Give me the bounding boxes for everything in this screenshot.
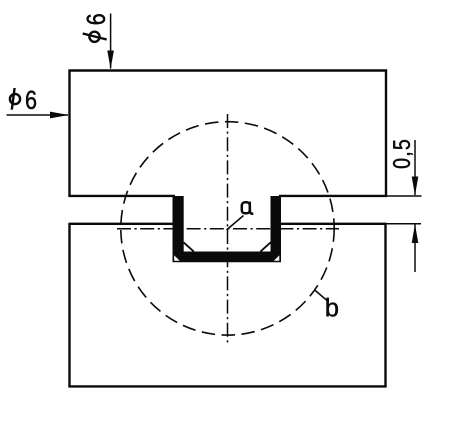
top arrowhead (down) bbox=[107, 51, 114, 70]
phi slash bbox=[12, 88, 15, 110]
inner bend line right bbox=[260, 242, 270, 251]
outer corner relief left (white triangle) bbox=[174, 255, 180, 260]
digit 6 bbox=[87, 14, 105, 24]
vertical center line bbox=[227, 114, 229, 344]
label b text bbox=[326, 298, 337, 317]
label a glyph (single-storey a) bbox=[242, 202, 254, 214]
phi circle bbox=[89, 32, 99, 42]
top dimension arrow line bbox=[110, 14, 112, 69]
lower die block bbox=[70, 224, 386, 387]
outer corner relief right (white triangle) bbox=[274, 255, 280, 260]
inner bend line left bbox=[184, 242, 194, 251]
label phi-6 left bbox=[10, 88, 36, 110]
label a leader line bbox=[227, 216, 244, 231]
upper block bottom edge left segment bbox=[68, 195, 175, 197]
phi slash bbox=[83, 34, 107, 40]
dimension 0,5 lower arrow line bbox=[414, 225, 416, 273]
lower block top edge left segment bbox=[68, 223, 174, 225]
phi circle bbox=[10, 94, 20, 104]
upper die block bbox=[70, 71, 387, 197]
extension line of lower block top (right) bbox=[386, 223, 422, 225]
dimension 0,5 upper arrowhead (down) bbox=[412, 177, 419, 196]
upper block bottom edge right segment bbox=[279, 195, 387, 197]
horizontal center line bbox=[117, 228, 339, 230]
left arrowhead (right) bbox=[50, 112, 69, 119]
left dimension arrow line bbox=[7, 114, 69, 116]
extension line of upper block bottom (right) bbox=[386, 195, 422, 197]
dimension 0,5 upper arrow line bbox=[414, 140, 416, 195]
lower block top edge right segment bbox=[280, 223, 387, 225]
inner bend relief right (white triangle) bbox=[261, 243, 270, 251]
label phi-6 top (rotated) bbox=[83, 14, 107, 42]
digit 6 bbox=[26, 91, 36, 109]
dimension 0,5 lower arrowhead (up) bbox=[412, 224, 419, 243]
workpiece a : thick black U channel bbox=[173, 196, 282, 262]
label b leader line bbox=[315, 290, 327, 301]
dimension text 0,5 (rotated) bbox=[393, 140, 413, 168]
inner bend relief left (white triangle) bbox=[184, 243, 193, 251]
dashed circle b (tool contour) bbox=[121, 122, 334, 335]
